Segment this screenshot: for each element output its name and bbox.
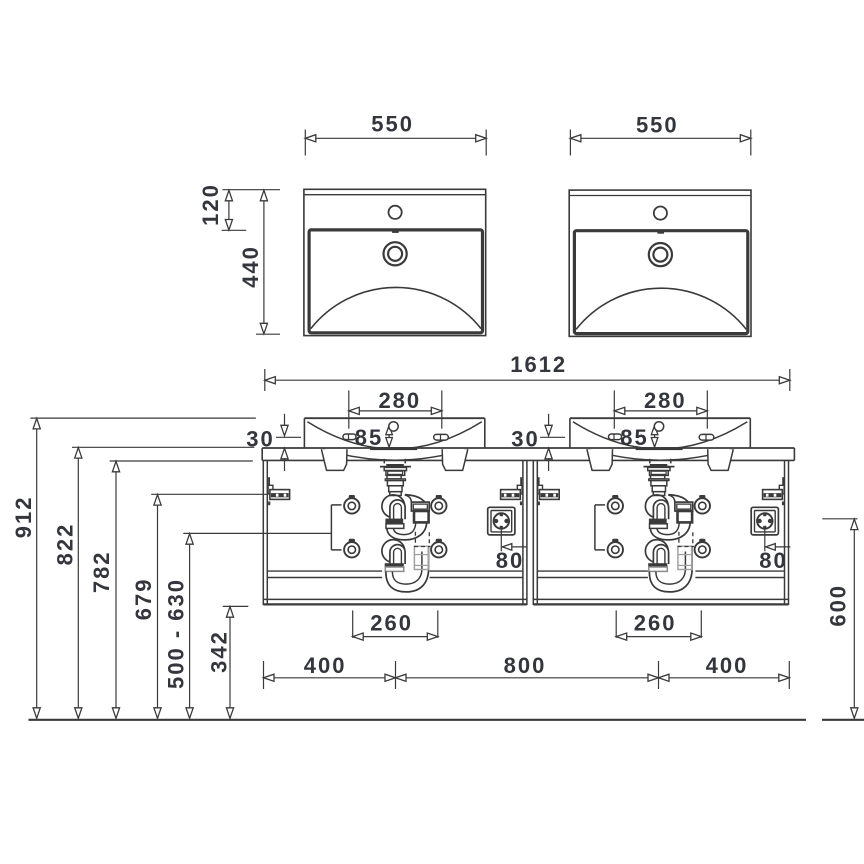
svg-text:400: 400 — [706, 653, 749, 678]
wall bracket cabinet1 right — [501, 477, 523, 505]
svg-text:400: 400 — [304, 653, 347, 678]
svg-text:260: 260 — [634, 611, 677, 636]
countertop — [262, 448, 794, 460]
svg-text:280: 280 — [644, 388, 687, 413]
sink 2 plan view — [569, 190, 751, 336]
dimension 600 (socket height) — [822, 519, 858, 719]
trap and fittings cabinet 2 — [595, 464, 791, 640]
dimension 822 (height) — [53, 447, 255, 718]
svg-text:550: 550 — [636, 113, 679, 138]
cabinet 2 box — [533, 460, 788, 605]
floor baseline — [29, 719, 864, 721]
svg-text:85: 85 — [355, 425, 383, 450]
svg-text:120: 120 — [198, 183, 223, 226]
dimension 782 (height) — [89, 461, 253, 718]
dimensions 400 / 800 / 400 (drain offsets) — [264, 653, 790, 689]
svg-text:30: 30 — [511, 427, 539, 452]
sink 2 front elevation — [570, 388, 750, 470]
wall bracket cabinet2 right — [763, 477, 785, 505]
svg-text:500 - 630: 500 - 630 — [164, 578, 189, 689]
wall bracket cabinet1 left — [268, 477, 290, 505]
cabinet 1 box — [263, 460, 527, 605]
dimension 440 (sink depth) — [238, 190, 280, 334]
sink 1 front elevation — [304, 388, 484, 470]
wall bracket cabinet2 left — [538, 477, 560, 505]
dimension 342 (height) — [206, 606, 248, 718]
svg-text:280: 280 — [378, 388, 421, 413]
svg-text:679: 679 — [131, 578, 156, 621]
sink 1 plan view — [304, 189, 486, 335]
svg-text:85: 85 — [620, 425, 648, 450]
svg-text:600: 600 — [826, 584, 851, 627]
dimension 500 - 630 (height) — [164, 533, 332, 718]
svg-text:80: 80 — [496, 548, 524, 573]
dimension 550 (sink 2 width) — [570, 113, 750, 156]
svg-text:440: 440 — [238, 245, 263, 288]
dimension 120 (ledge depth) — [198, 183, 280, 230]
svg-text:550: 550 — [371, 112, 414, 137]
svg-text:782: 782 — [89, 550, 114, 593]
dimension 912 (height) — [11, 418, 256, 718]
svg-text:80: 80 — [759, 548, 787, 573]
svg-text:342: 342 — [206, 630, 231, 673]
dimension 679 (height) — [131, 494, 267, 718]
dimension 1612 (total width) — [265, 352, 790, 391]
svg-text:1612: 1612 — [510, 352, 567, 377]
dimension 30 right (rim above counter) — [511, 414, 565, 471]
svg-text:260: 260 — [370, 611, 413, 636]
dimension 30 left (rim above counter) — [246, 414, 301, 471]
svg-text:912: 912 — [11, 496, 36, 539]
dimension 550 (sink 1 width) — [305, 112, 486, 156]
trap and fittings cabinet 1 — [331, 464, 527, 640]
svg-text:800: 800 — [504, 653, 547, 678]
svg-text:822: 822 — [53, 523, 78, 566]
